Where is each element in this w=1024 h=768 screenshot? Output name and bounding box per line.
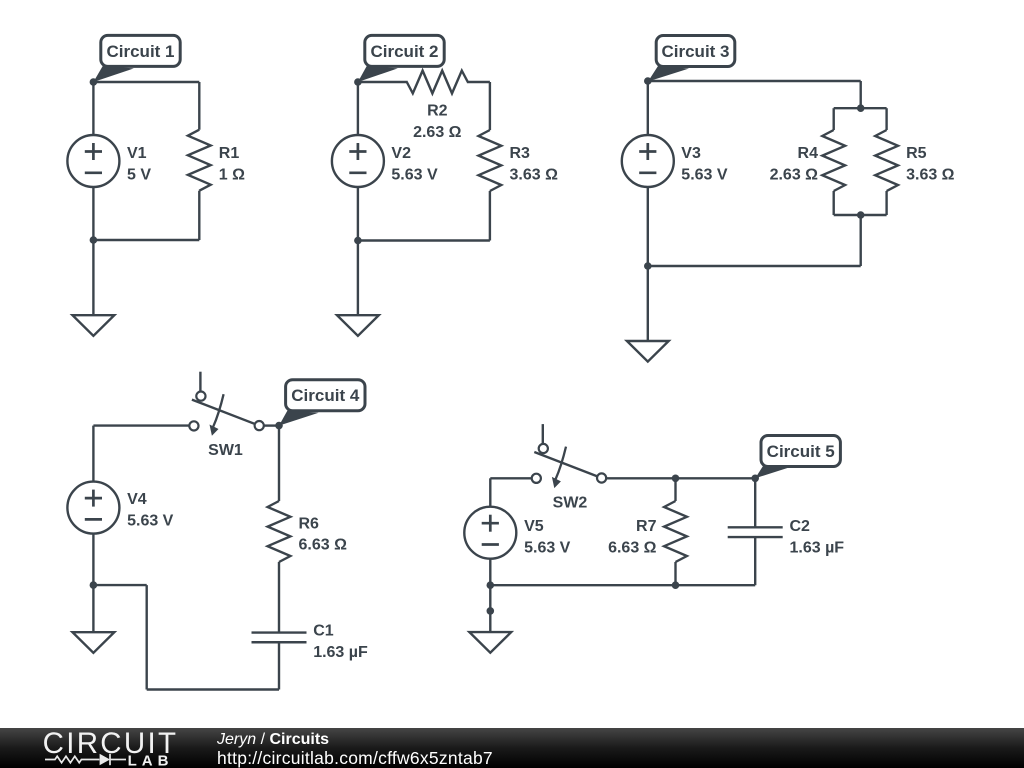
svg-text:5 V: 5 V [127, 167, 151, 184]
svg-text:V5: V5 [524, 518, 544, 535]
svg-text:Circuit 2: Circuit 2 [370, 42, 438, 61]
svg-text:R2: R2 [427, 103, 448, 120]
svg-text:Circuit 3: Circuit 3 [661, 42, 729, 61]
svg-text:6.63 Ω: 6.63 Ω [299, 537, 348, 554]
svg-text:http://circuitlab.com/cffw6x5z: http://circuitlab.com/cffw6x5zntab7 [217, 748, 493, 768]
svg-text:Circuit 4: Circuit 4 [291, 386, 360, 405]
svg-text:5.63 V: 5.63 V [391, 167, 438, 184]
svg-text:R4: R4 [798, 145, 819, 162]
svg-text:SW1: SW1 [208, 442, 243, 459]
svg-text:2.63 Ω: 2.63 Ω [770, 167, 819, 184]
svg-text:V2: V2 [391, 145, 411, 162]
svg-text:C1: C1 [313, 623, 334, 640]
svg-text:Circuit 1: Circuit 1 [106, 42, 174, 61]
svg-text:R6: R6 [299, 516, 320, 533]
svg-text:6.63 Ω: 6.63 Ω [608, 540, 657, 557]
svg-text:1.63 µF: 1.63 µF [313, 644, 368, 661]
svg-text:R5: R5 [906, 145, 927, 162]
svg-text:5.63 V: 5.63 V [524, 540, 571, 557]
svg-text:5.63 V: 5.63 V [127, 513, 174, 530]
svg-text:V1: V1 [127, 145, 147, 162]
svg-text:SW2: SW2 [553, 495, 588, 512]
svg-text:V4: V4 [127, 491, 147, 508]
svg-text:2.63 Ω: 2.63 Ω [413, 124, 462, 141]
svg-text:3.63 Ω: 3.63 Ω [510, 167, 559, 184]
svg-text:LAB: LAB [128, 752, 174, 768]
svg-text:V3: V3 [681, 145, 701, 162]
svg-text:R1: R1 [219, 145, 240, 162]
svg-text:Circuit 5: Circuit 5 [767, 442, 835, 461]
svg-text:1 Ω: 1 Ω [219, 167, 245, 184]
svg-text:Jeryn / Circuits: Jeryn / Circuits [216, 731, 329, 748]
svg-text:3.63 Ω: 3.63 Ω [906, 167, 955, 184]
svg-text:1.63 µF: 1.63 µF [790, 540, 845, 557]
svg-text:R3: R3 [510, 145, 531, 162]
svg-text:R7: R7 [636, 518, 657, 535]
svg-text:5.63 V: 5.63 V [681, 167, 728, 184]
svg-text:C2: C2 [790, 518, 811, 535]
